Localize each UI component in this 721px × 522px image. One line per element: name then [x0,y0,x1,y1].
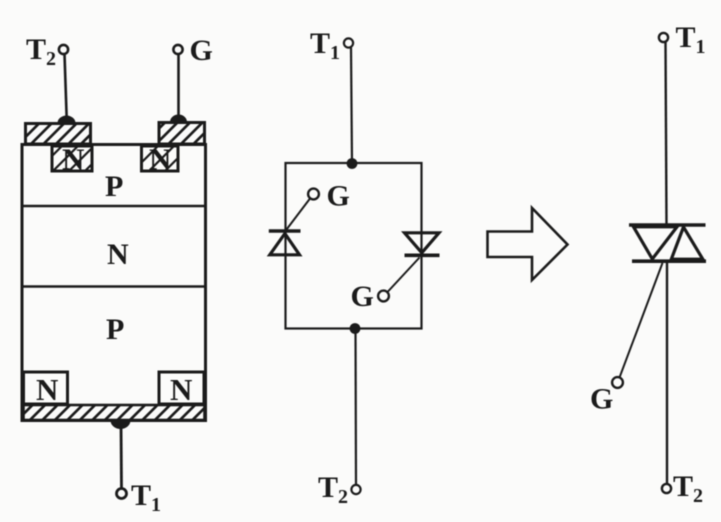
svg-text:P: P [106,313,124,346]
solder blob at G contact [170,115,187,122]
gate terminal circle (right triac) [612,377,623,388]
triac left triangle (points down) [634,227,678,259]
wire T1 down to loop [351,48,352,164]
layer boundary P/N [23,205,205,208]
solder blob at T2 contact [58,116,76,123]
triac right triangle (points up) [671,227,703,259]
solder blob at T1 bottom contact [111,421,131,430]
junction node (top) [347,158,358,169]
terminal circle T2 (middle) [351,485,360,494]
svg-text:G: G [351,280,374,313]
junction node (bottom) [350,323,361,334]
layer boundary N/P [23,285,205,288]
svg-text:P: P [105,170,123,203]
thyristor V1 (left, conducts upward): cathode bar [269,229,301,233]
embedded N region under G contact (hatched) [142,146,179,171]
svg-text:G: G [190,34,213,67]
terminal circle T2 [59,45,68,54]
gate wire (right triac) [620,263,663,378]
wire G terminal to contact [177,54,180,121]
embedded N region under T2 contact (hatched) [52,146,92,171]
top-left metal contact (T2, hatched) [26,124,91,145]
svg-text:G: G [327,180,350,213]
triac top bar [629,223,706,227]
loop rectangle [286,163,422,329]
terminal circle T2 (right) [662,484,671,493]
wire T1 to triac [666,42,667,225]
svg-text:N: N [62,142,84,177]
svg-text:N: N [36,372,58,407]
gate terminal circle of V2 [378,291,389,302]
terminal circle T1 [117,489,127,499]
svg-text:G: G [590,383,613,416]
thyristor V2 (right, conducts downward): triangle [405,233,440,253]
terminal circle T1 (right) [659,33,668,42]
bottom-left embedded N region [24,372,68,404]
wire triac to T2 (right) [666,263,668,484]
top-right metal contact (G, hatched) [159,123,205,145]
svg-text:N: N [107,238,129,271]
gate wire of V1 [287,199,311,230]
svg-text:N: N [170,372,192,407]
wire bottom contact to T1 terminal [120,424,123,489]
body outline [22,145,206,421]
wire loop to T2 (middle bottom) [354,329,357,485]
terminal circle G [173,45,182,54]
wire T2 terminal to contact [65,54,67,122]
gate terminal circle of V1 [308,189,319,200]
terminal circle T1 (middle) [344,38,353,47]
thyristor V2 cathode bar [405,254,440,258]
bottom metal contact (T1, hatched strip) [24,405,205,420]
triac bottom bar [632,259,706,263]
bottom-right embedded N region [159,372,204,404]
gate wire of V2 [388,258,420,293]
svg-text:N: N [149,142,171,177]
thyristor V1 triangle [270,234,300,255]
